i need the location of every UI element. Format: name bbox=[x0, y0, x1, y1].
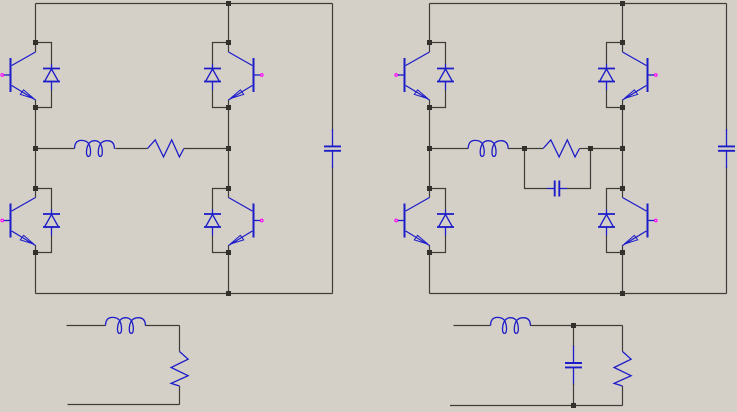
wire b cap branch right bbox=[567, 149, 591, 189]
wire bR2 emitter stub bbox=[622, 245, 624, 253]
transistor QaR1 bbox=[229, 52, 261, 100]
diode DbR1 bbox=[598, 64, 615, 90]
junction aL2 bottom bbox=[33, 250, 38, 255]
wire sub-b bottom bbox=[450, 405, 623, 407]
wire aL leg bottom bbox=[35, 253, 37, 294]
junction aR2 bottom bbox=[226, 250, 231, 255]
transistor QaL2 bbox=[4, 198, 36, 246]
wire aR2 emitter stub bbox=[228, 245, 230, 253]
wire aL2 diode branch bbox=[36, 189, 52, 253]
wire bR1 diode branch bbox=[607, 43, 623, 108]
junction bL2 top bbox=[427, 186, 432, 191]
inductor Lsb bbox=[491, 317, 531, 333]
wire aL1 diode branch bbox=[36, 43, 52, 108]
wire dc rail upper segment (a) bbox=[332, 4, 334, 131]
transistor QbL2 bbox=[398, 198, 430, 246]
wire b mid-right bbox=[591, 148, 623, 150]
wire aL1 emitter stub bbox=[35, 100, 37, 108]
junction aL2 top bbox=[33, 186, 38, 191]
wire b rc tap right bbox=[580, 148, 591, 150]
wire bL1 collector stub bbox=[429, 43, 431, 53]
junction b rc left bbox=[522, 146, 527, 151]
resistor Rsa bbox=[171, 352, 188, 387]
capacitor Cadc bbox=[324, 129, 341, 168]
junction bL1 bottom bbox=[427, 105, 432, 110]
node GbR1 (gate terminal) bbox=[655, 74, 658, 77]
wire bL2 diode branch bbox=[430, 189, 446, 253]
capacitor Cb bbox=[547, 181, 567, 197]
diode DaR2 bbox=[204, 210, 221, 236]
wire sub-a bottom bbox=[68, 404, 180, 406]
junction b rc right bbox=[588, 146, 593, 151]
wire aL2 emitter stub bbox=[35, 245, 37, 253]
wire bL1 diode branch bbox=[430, 43, 446, 108]
inductor Lb bbox=[468, 140, 508, 156]
wire b mid-left bbox=[432, 148, 469, 150]
wire aR1 collector stub bbox=[228, 43, 230, 53]
junction bL mid bbox=[427, 146, 432, 151]
wire aR2 collector stub bbox=[228, 189, 230, 198]
capacitor Cbdc bbox=[718, 129, 735, 168]
wire aR1 diode branch bbox=[213, 43, 229, 108]
junction a bottom rail tap bbox=[226, 291, 231, 296]
wire sub-a right upper bbox=[179, 326, 181, 352]
junction aL1 bottom bbox=[33, 105, 38, 110]
wire aR leg top bbox=[228, 4, 230, 43]
transistor QaR2 bbox=[229, 198, 261, 246]
junction aR1 top bbox=[226, 40, 231, 45]
wire bottom rail (b) bbox=[430, 293, 727, 295]
inductor La bbox=[75, 140, 115, 156]
transistor QbL1 bbox=[398, 52, 430, 100]
diode DbR2 bbox=[598, 210, 615, 236]
wire sub-a top-left bbox=[67, 325, 106, 327]
junction aL mid bbox=[33, 146, 38, 151]
junction bR1 top bbox=[620, 40, 625, 45]
wire a mid-left bbox=[38, 148, 75, 150]
junction bL1 top bbox=[427, 40, 432, 45]
wire bL2 collector stub bbox=[429, 189, 431, 198]
wire aL leg top bbox=[35, 4, 37, 43]
junction b top rail tap bbox=[620, 1, 625, 6]
wire bR1 emitter stub bbox=[622, 100, 624, 108]
junction a top rail tap bbox=[226, 1, 231, 6]
wire top rail (a) bbox=[36, 3, 333, 5]
wire dc rail lower segment (b) bbox=[726, 167, 728, 294]
wire aR1 emitter stub bbox=[228, 100, 230, 108]
transistor QaL1 bbox=[4, 52, 36, 100]
wire sub-b top-mid bbox=[531, 325, 574, 327]
junction sub-b top bbox=[571, 323, 576, 328]
node GbL1 (gate terminal) bbox=[395, 74, 398, 77]
wire aR leg mid lower bbox=[228, 149, 230, 189]
wire a mid-center bbox=[116, 148, 148, 150]
diode DbL2 bbox=[437, 210, 454, 236]
junction b bottom rail tap bbox=[620, 291, 625, 296]
inductor Lsa bbox=[106, 317, 146, 333]
wire bR2 diode branch bbox=[607, 189, 623, 253]
wire b rc tap left bbox=[525, 148, 544, 150]
wire bL leg mid upper bbox=[429, 108, 431, 149]
wire bR leg mid lower bbox=[622, 149, 624, 189]
wire sub-b right upper bbox=[622, 326, 624, 352]
wire sub-a right lower bbox=[179, 386, 181, 405]
wire sub-b cap upper bbox=[573, 326, 575, 348]
wire dc rail lower segment (a) bbox=[332, 167, 334, 294]
junction bR2 top bbox=[620, 186, 625, 191]
junction aR mid bbox=[226, 146, 231, 151]
wire bR leg mid upper bbox=[622, 108, 624, 149]
wire bR2 collector stub bbox=[622, 189, 624, 198]
junction aL1 top bbox=[33, 40, 38, 45]
wire bR leg bottom bbox=[622, 253, 624, 294]
diode DaR1 bbox=[204, 64, 221, 90]
wire bottom rail (a) bbox=[36, 293, 333, 295]
transistor QbR1 bbox=[623, 52, 655, 100]
resistor Rsb bbox=[614, 352, 631, 387]
junction sub-b bottom bbox=[571, 403, 576, 408]
junction bR1 bottom bbox=[620, 105, 625, 110]
wire bL leg top bbox=[429, 4, 431, 43]
wire bL leg bottom bbox=[429, 253, 431, 294]
wire sub-a top-right bbox=[146, 325, 180, 327]
wire aL1 collector stub bbox=[35, 43, 37, 53]
node GbR2 (gate terminal) bbox=[655, 219, 658, 222]
wire top rail (b) bbox=[430, 3, 727, 5]
wire dc rail upper segment (b) bbox=[726, 4, 728, 131]
resistor Ra bbox=[148, 140, 184, 157]
wire aL2 collector stub bbox=[35, 189, 37, 198]
wire aR leg mid upper bbox=[228, 108, 230, 149]
capacitor Csb bbox=[565, 346, 582, 385]
wire a mid-right bbox=[184, 148, 229, 150]
node GaR1 (gate terminal) bbox=[261, 74, 264, 77]
junction bR2 bottom bbox=[620, 250, 625, 255]
wire b cap branch left bbox=[525, 149, 548, 189]
wire bR1 collector stub bbox=[622, 43, 624, 53]
wire bL leg mid lower bbox=[429, 149, 431, 189]
wire sub-b right lower bbox=[622, 386, 624, 406]
wire aL leg mid upper bbox=[35, 108, 37, 149]
diode DaL2 bbox=[43, 210, 60, 236]
wire aR2 diode branch bbox=[213, 189, 229, 253]
wire bR leg top bbox=[622, 4, 624, 43]
wire aL leg mid lower bbox=[35, 149, 37, 189]
wire bL1 emitter stub bbox=[429, 100, 431, 108]
node GaL2 (gate terminal) bbox=[1, 219, 4, 222]
wire bL2 emitter stub bbox=[429, 245, 431, 253]
transistor QbR2 bbox=[623, 198, 655, 246]
node GbL2 (gate terminal) bbox=[395, 219, 398, 222]
wire sub-b top-right bbox=[574, 325, 623, 327]
wire aR leg bottom bbox=[228, 253, 230, 294]
resistor Rb bbox=[543, 140, 579, 157]
diode DaL1 bbox=[43, 64, 60, 90]
junction aR2 top bbox=[226, 186, 231, 191]
junction bL2 bottom bbox=[427, 250, 432, 255]
diode DbL1 bbox=[437, 64, 454, 90]
wire sub-b top-left bbox=[454, 325, 491, 327]
wire b mid-center bbox=[508, 148, 524, 150]
junction bR mid bbox=[620, 146, 625, 151]
junction aR1 bottom bbox=[226, 105, 231, 110]
wire sub-b cap lower bbox=[573, 384, 575, 406]
node GaL1 (gate terminal) bbox=[1, 74, 4, 77]
node GaR2 (gate terminal) bbox=[261, 219, 264, 222]
